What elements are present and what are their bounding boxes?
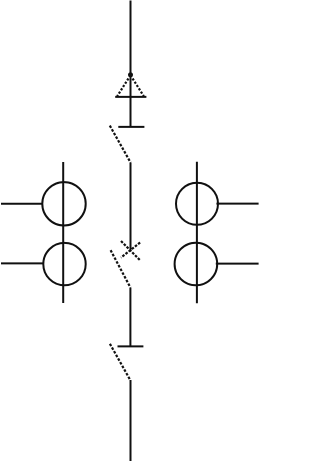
circuit breaker CB1 cross stroke NE-SW	[121, 243, 140, 258]
current transformer CT3 (upper right)	[176, 183, 218, 225]
circuit breaker CB1 blade	[111, 250, 131, 287]
disconnector DS2 fixed contact bar	[118, 345, 144, 347]
disconnector DS2 blade	[110, 344, 130, 380]
wire: CB1 to disconnector DS2	[129, 288, 131, 347]
wire: right CT primary conductor	[196, 162, 198, 303]
wire: DS1 to circuit breaker CB1	[130, 162, 132, 250]
wire: CT4 secondary lead right	[216, 263, 259, 265]
current transformer CT1 (upper left)	[42, 182, 85, 225]
disconnector DS1 blade	[110, 126, 131, 163]
wire: CT2 secondary lead left	[1, 262, 43, 264]
disconnector DS1 fixed contact bar	[118, 126, 144, 128]
wire: outgoing feeder to bottom	[130, 380, 132, 461]
wire: left CT primary conductor	[62, 162, 64, 303]
wire: incoming feeder from top	[130, 1, 132, 75]
wire: arrester to disconnector DS1	[130, 75, 132, 127]
surge arrester U1 right side (dashed)	[131, 75, 144, 96]
circuit breaker CB1 cross stroke NW-SE	[121, 241, 140, 260]
surge arrester U1 base bar	[115, 96, 146, 98]
wire: CT1 secondary lead left	[1, 203, 42, 205]
current transformer CT2 (lower left)	[43, 243, 85, 285]
current transformer CT4 (lower right)	[175, 243, 218, 286]
node: junction dot at surge arrester tap	[128, 72, 133, 77]
surge arrester U1 left side (dashed)	[117, 75, 130, 96]
wire: CT3 secondary lead right	[216, 203, 258, 205]
